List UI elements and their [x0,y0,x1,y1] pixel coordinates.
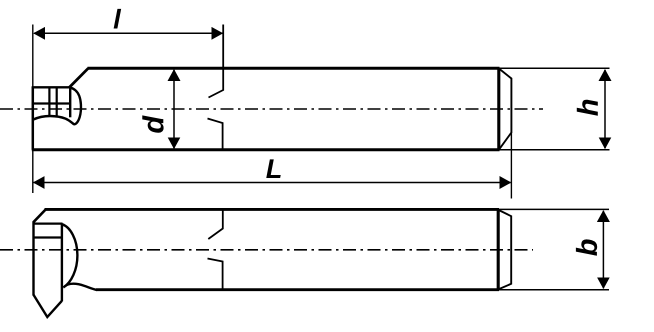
bottom view break line upper [208,209,223,239]
centerline top view [0,108,543,110]
bottom view end chamfer [499,210,512,289]
dimension d arrow [173,70,175,149]
top view insert divider 2 [56,87,58,117]
top view insert right edge [69,87,71,117]
label b [576,239,597,255]
top view end chamfer [499,69,511,150]
bottom view body bottom edge [96,288,499,291]
bottom view relief hump [65,284,98,290]
b bottom extension line [499,289,609,291]
label L [266,159,280,178]
h top extension line [500,67,610,69]
h bottom extension line [500,149,610,151]
top view shank end line [497,68,500,150]
dimension L extension left [32,150,34,193]
dimension L line [34,182,511,184]
top view body top edge [88,67,500,70]
bottom view left edge [32,222,34,296]
dimension L extension right [510,133,512,199]
bottom view body top edge [45,208,500,211]
top view chip groove dome and nose loop [33,88,81,125]
label d [142,115,163,132]
bottom view insert line 1 [34,223,63,225]
bottom view break line lower [208,259,223,290]
label h [577,100,598,116]
top view insert top edge [32,86,70,88]
bottom view insert line 2 [34,236,62,238]
top view insert grid horizontal [32,102,70,104]
top view left edge [32,87,35,150]
top view body bottom edge [32,148,500,151]
b top extension line [499,208,609,210]
bottom view tip point [34,295,62,317]
top view break line lower [208,119,223,150]
top view insert divider 1 [48,87,50,117]
top view break line upper [209,25,224,98]
dimension h arrow [604,70,606,149]
dimension l extension left [32,25,34,88]
bottom view nose arc [62,224,78,287]
dimension b arrow [602,211,604,288]
bottom view corner chamfer [33,210,45,223]
label l [114,9,122,29]
centerline bottom view [0,249,533,251]
top view head slope [69,68,88,87]
bottom view shank end line [497,209,500,289]
dimension l line [34,32,223,34]
bottom view insert right edge [61,224,63,302]
